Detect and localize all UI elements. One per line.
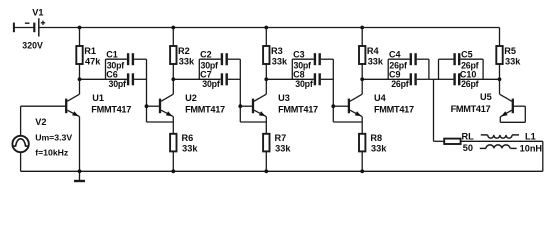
node collector tap dot stage 4 <box>360 77 364 81</box>
svg-text:FMMT417: FMMT417 <box>185 104 225 114</box>
svg-text:320V: 320V <box>22 41 43 51</box>
capacitor C4 <box>388 53 429 65</box>
node R7 rail junction <box>264 169 268 173</box>
svg-text:33k: 33k <box>275 144 291 154</box>
wire R7 to ground rail <box>265 151 267 171</box>
resistor R3 <box>263 46 269 64</box>
wire coupling net to U2 base <box>146 59 148 122</box>
svg-text:FMMT417: FMMT417 <box>278 104 318 114</box>
node U1 emitter rail junction <box>78 169 82 173</box>
wire rail to R2 <box>172 28 174 47</box>
wire output tap down to RL <box>433 79 435 141</box>
svg-text:50: 50 <box>463 143 473 153</box>
svg-text:R8: R8 <box>370 133 382 143</box>
svg-text:R6: R6 <box>182 133 194 143</box>
svg-text:R4: R4 <box>367 46 380 56</box>
svg-text:33k: 33k <box>182 144 198 154</box>
wire cap pair left connector stage 4 <box>387 59 389 79</box>
wire midpoint bridge <box>429 78 439 80</box>
svg-text:R2: R2 <box>178 46 190 56</box>
svg-text:26pf: 26pf <box>391 79 409 89</box>
svg-text:FMMT417: FMMT417 <box>374 104 414 114</box>
svg-text:R7: R7 <box>275 133 287 143</box>
svg-text:C6: C6 <box>106 70 118 80</box>
node base junction U3 <box>238 104 242 108</box>
wire base jog bottom U3 <box>240 121 266 123</box>
wire rail to R3 <box>265 28 267 47</box>
wire U2 emitter down <box>172 117 174 134</box>
node R5 collector junction <box>498 77 502 81</box>
node collector tap dot stage 3 <box>264 77 268 81</box>
wire R5 lead down <box>499 64 501 79</box>
resistor R1 <box>76 46 82 64</box>
svg-text:R5: R5 <box>504 46 516 56</box>
node R8 rail junction <box>360 169 364 173</box>
transistor U4 <box>333 79 362 116</box>
wire rail to R1 <box>79 28 81 47</box>
svg-text:f=10kHz: f=10kHz <box>35 148 69 158</box>
wire coupling net to U3 base <box>239 59 241 122</box>
wire R4 lead down <box>361 64 363 79</box>
wire base jog bottom U2 <box>147 121 174 123</box>
svg-text:33k: 33k <box>368 57 384 67</box>
capacitor C1 <box>106 53 147 65</box>
ac source V2 <box>12 106 28 171</box>
wire cap pair left connector stage 2 <box>198 59 200 79</box>
wire C5 right corner connector <box>482 59 484 79</box>
svg-text:C4: C4 <box>389 50 401 60</box>
wire bottom ground rail <box>21 170 543 172</box>
svg-text:26pf: 26pf <box>461 79 479 89</box>
battery V1 <box>14 18 45 36</box>
wire C5 left connector <box>438 59 440 79</box>
svg-text:V1: V1 <box>32 8 43 18</box>
svg-text:10nH: 10nH <box>520 144 543 154</box>
svg-text:33k: 33k <box>272 57 288 67</box>
svg-text:U1: U1 <box>92 93 104 103</box>
svg-text:C7: C7 <box>200 70 212 80</box>
wire cap pair left connector stage 1 <box>105 59 107 79</box>
wire cap pair left connector stage 3 <box>291 59 293 79</box>
node collector tap dot stage 1 <box>78 77 82 81</box>
wire U3 emitter down <box>265 117 267 134</box>
wire base jog bottom U4 <box>333 121 362 123</box>
svg-text:RL: RL <box>462 132 475 142</box>
resistor RL <box>444 139 460 144</box>
wire U4 emitter down <box>361 117 363 134</box>
svg-text:C3: C3 <box>293 50 305 60</box>
resistor R8 <box>359 134 365 152</box>
svg-text:U4: U4 <box>374 93 387 103</box>
svg-text:R1: R1 <box>84 46 96 56</box>
wire U1 emitter to ground <box>79 117 81 172</box>
inductor L1 (lower symbol) <box>480 145 517 148</box>
transistor U2 <box>147 79 174 116</box>
svg-text:C1: C1 <box>106 50 118 60</box>
capacitor C8 <box>266 73 333 85</box>
svg-text:33k: 33k <box>505 57 521 67</box>
wire rail to R5 <box>499 28 501 47</box>
wire coupling net to U4 base <box>332 59 334 122</box>
wire output right side down <box>542 141 544 171</box>
svg-text:C2: C2 <box>200 50 212 60</box>
node collector tap dot stage 2 <box>171 77 175 81</box>
svg-text:R3: R3 <box>271 46 283 56</box>
capacitor C3 <box>292 53 333 65</box>
resistor R5 <box>496 46 502 64</box>
node top rail junction R4 <box>360 26 364 30</box>
node base junction U2 <box>145 104 149 108</box>
wire R1 lead down <box>79 64 81 79</box>
resistor R4 <box>359 46 365 64</box>
svg-text:30pf: 30pf <box>109 79 127 89</box>
ground <box>74 171 85 181</box>
wire RL to right side <box>461 140 543 142</box>
node top rail junction R2 <box>171 26 175 30</box>
wire R8 to ground rail <box>361 151 363 171</box>
resistor R2 <box>170 46 176 64</box>
transistor U3 <box>240 79 266 116</box>
inductor L1 (upper symbol) <box>481 135 519 138</box>
svg-text:FMMT417: FMMT417 <box>451 104 491 114</box>
svg-text:U3: U3 <box>278 93 290 103</box>
capacitor C2 <box>199 53 240 65</box>
capacitor C10 <box>439 73 500 85</box>
svg-text:L1: L1 <box>525 131 536 141</box>
node base junction U4 <box>331 104 335 108</box>
svg-text:33k: 33k <box>371 144 387 154</box>
node top rail junction R3 <box>264 26 268 30</box>
wire R2 lead down <box>172 64 174 79</box>
svg-text:U5: U5 <box>480 92 492 102</box>
resistor R6 <box>170 134 176 152</box>
wire R6 to ground rail <box>172 151 174 171</box>
resistor R7 <box>263 134 269 152</box>
svg-text:U2: U2 <box>185 93 197 103</box>
capacitor C6 <box>80 73 147 85</box>
transistor U1 <box>21 79 80 116</box>
capacitor C7 <box>173 73 240 85</box>
svg-text:30pf: 30pf <box>295 79 313 89</box>
svg-text:C9: C9 <box>389 70 401 80</box>
svg-text:33k: 33k <box>179 57 195 67</box>
svg-text:Um=3.3V: Um=3.3V <box>35 133 72 143</box>
capacitor C9 <box>362 73 429 85</box>
wire R3 lead down <box>265 64 267 79</box>
svg-text:C5: C5 <box>461 50 473 60</box>
wire top power rail <box>39 27 500 29</box>
svg-text:C10: C10 <box>460 70 477 80</box>
svg-text:30pf: 30pf <box>202 79 220 89</box>
svg-text:47k: 47k <box>85 57 101 67</box>
capacitor C5 <box>439 53 484 65</box>
node top rail junction R1 <box>78 26 82 30</box>
wire rail to R4 <box>361 28 363 47</box>
node R6 rail junction <box>171 169 175 173</box>
wire C4/C9 right connector <box>428 59 430 79</box>
svg-text:V2: V2 <box>35 117 46 127</box>
svg-text:C8: C8 <box>293 70 305 80</box>
transistor U5 <box>500 79 526 122</box>
svg-text:FMMT417: FMMT417 <box>91 104 131 114</box>
wire tap to RL <box>434 140 445 142</box>
